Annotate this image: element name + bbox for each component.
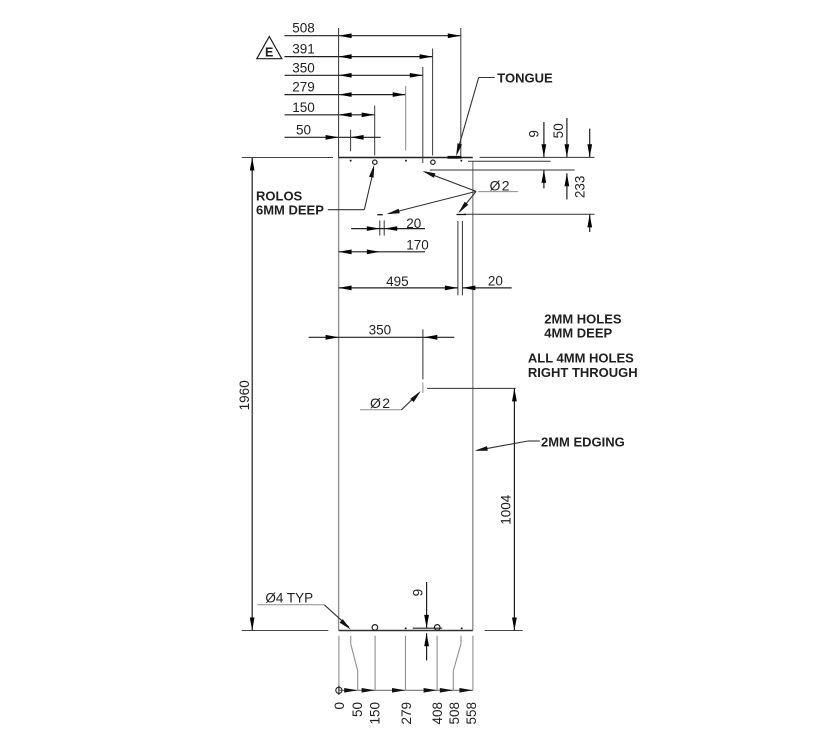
- extension line from middle hole: [427, 387, 516, 389]
- extension line x=0 (left edge datum, above part): [338, 28, 340, 158]
- ordinate arrow 508: [440, 688, 454, 693]
- ordinate label 408: [430, 702, 445, 725]
- hole circle (408, bottom): [434, 625, 440, 631]
- svg-text:495: 495: [386, 274, 409, 289]
- row2 ext tick b: [383, 220, 385, 235]
- extension line top-left (1960): [242, 157, 333, 159]
- ordinate arrow 279: [392, 688, 406, 693]
- hole circle (150, top row): [373, 160, 377, 164]
- ordinate ext 0: [338, 636, 340, 691]
- dimension 9 (bottom): [410, 582, 429, 660]
- ordinate arrow 150: [362, 688, 376, 693]
- hole row2 left center dash: [377, 214, 383, 216]
- svg-text:2MM HOLES: 2MM HOLES: [544, 311, 622, 326]
- dimension 233 (right): [573, 129, 593, 232]
- dimension 391 (top chain): [285, 42, 433, 156]
- ordinate ext 508 (dogleg): [453, 636, 461, 691]
- revision triangle E: [257, 37, 282, 60]
- dimension 350 (middle): [309, 323, 455, 380]
- svg-text:150: 150: [292, 100, 315, 115]
- ordinate arrow 408: [424, 688, 438, 693]
- ordinate baseline: [339, 689, 473, 691]
- tongue tab segment: [448, 156, 462, 159]
- extension line top-right of edge: [480, 156, 595, 158]
- ordinate ext 279: [405, 636, 407, 691]
- svg-text:170: 170: [406, 238, 429, 253]
- svg-text:233: 233: [573, 176, 588, 199]
- row2 ext line c: [457, 221, 459, 295]
- svg-text:558: 558: [464, 702, 479, 725]
- ordinate origin symbol: [336, 686, 342, 695]
- ordinate label 558: [464, 702, 479, 725]
- hole center dot (508, top row): [461, 160, 463, 162]
- row2 ext line d: [461, 221, 463, 295]
- dimension 150 (top chain): [285, 100, 375, 156]
- dimension 50 (top chain): [285, 122, 381, 151]
- svg-text:4MM DEEP: 4MM DEEP: [544, 326, 612, 341]
- ordinate ext 50 (dogleg): [351, 636, 358, 691]
- note ALL 4MM HOLES / RIGHT THROUGH: [528, 351, 638, 380]
- ordinate arrow 50: [344, 688, 358, 693]
- part outline right edge: [472, 162, 474, 631]
- hole circle (391, top row): [431, 160, 435, 164]
- middle hole center mark: [422, 383, 424, 394]
- ordinate label 0: [332, 702, 347, 710]
- part outline top edge: [339, 157, 473, 159]
- ordinate label 508: [447, 702, 462, 725]
- label dia 4 TYP: [258, 591, 351, 630]
- ordinate ext 408: [436, 636, 438, 691]
- bottom hole row line: [413, 627, 443, 629]
- hole center dot (279, top row): [405, 160, 407, 162]
- dimension 170: [339, 238, 429, 255]
- svg-text:150: 150: [367, 702, 382, 725]
- ordinate label 150: [367, 702, 382, 725]
- ordinate ext 150: [374, 636, 376, 691]
- dimension 495: [339, 274, 458, 290]
- svg-text:50: 50: [551, 123, 566, 138]
- dimension 9 (top right): [526, 122, 546, 188]
- svg-text:RIGHT THROUGH: RIGHT THROUGH: [528, 365, 638, 380]
- dimension 20 (right gap): [462, 274, 511, 291]
- svg-text:1004: 1004: [498, 494, 513, 525]
- hole center dot (50, top row): [350, 160, 352, 162]
- dimension 1960: [237, 158, 255, 631]
- svg-text:ALL 4MM HOLES: ALL 4MM HOLES: [528, 351, 634, 366]
- dimension 350 (top chain): [285, 60, 423, 163]
- part outline left edge: [338, 158, 340, 631]
- svg-text:0: 0: [332, 702, 347, 710]
- note 2MM HOLES / 4MM DEEP: [544, 311, 622, 340]
- svg-text:350: 350: [292, 60, 315, 75]
- tongue line y161: [468, 160, 551, 162]
- dimension 1004: [498, 388, 516, 630]
- label TONGUE: [456, 70, 553, 156]
- label dia 2 (lower): [360, 391, 421, 411]
- label ROLOS 6MM DEEP: [256, 165, 374, 218]
- svg-text:408: 408: [430, 702, 445, 725]
- extension line y214 (233 bottom): [464, 213, 595, 215]
- svg-text:9: 9: [526, 130, 541, 138]
- svg-text:1960: 1960: [237, 380, 252, 410]
- hole center dot (508, bottom): [461, 628, 463, 630]
- svg-text:508: 508: [292, 21, 315, 36]
- ordinate label 50: [350, 702, 365, 717]
- ordinate label 279: [399, 702, 414, 725]
- svg-text:9: 9: [410, 589, 425, 597]
- svg-text:ROLOS: ROLOS: [256, 188, 303, 203]
- svg-text:20: 20: [488, 274, 503, 289]
- hole circle (150, bottom): [372, 625, 378, 631]
- line y170: [430, 169, 575, 171]
- svg-text:279: 279: [292, 80, 315, 95]
- dimension 20 (row2): [351, 216, 425, 231]
- svg-text:50: 50: [350, 702, 365, 717]
- dimension 508 (top chain): [285, 21, 461, 157]
- svg-text:279: 279: [399, 702, 414, 725]
- row2 ext tick a: [379, 220, 381, 235]
- label dia 2 (upper) with leaders: [387, 171, 518, 214]
- label 2MM EDGING: [475, 434, 625, 451]
- part outline bottom edge: [339, 630, 473, 632]
- svg-text:6MM DEEP: 6MM DEEP: [256, 202, 324, 217]
- ordinate ext 558: [472, 636, 474, 691]
- dimension 50 (top right): [551, 118, 569, 200]
- dimension 279 (top chain): [285, 80, 406, 151]
- svg-text:391: 391: [292, 42, 315, 57]
- svg-text:2MM EDGING: 2MM EDGING: [541, 434, 625, 449]
- hole center dot (279, bottom): [405, 628, 407, 630]
- hole row2 right center dash: [457, 214, 467, 216]
- svg-text:Ø4 TYP: Ø4 TYP: [265, 591, 313, 606]
- svg-text:350: 350: [369, 323, 392, 338]
- extension line bottom-left (1960): [242, 630, 328, 632]
- svg-text:20: 20: [406, 216, 421, 231]
- svg-text:E: E: [265, 45, 273, 59]
- extension line bottom-right: [485, 630, 523, 632]
- svg-text:50: 50: [296, 122, 311, 137]
- svg-text:508: 508: [447, 702, 462, 725]
- ordinate arrow 558: [459, 688, 473, 693]
- svg-text:Ø2: Ø2: [370, 395, 391, 411]
- svg-text:TONGUE: TONGUE: [497, 70, 553, 85]
